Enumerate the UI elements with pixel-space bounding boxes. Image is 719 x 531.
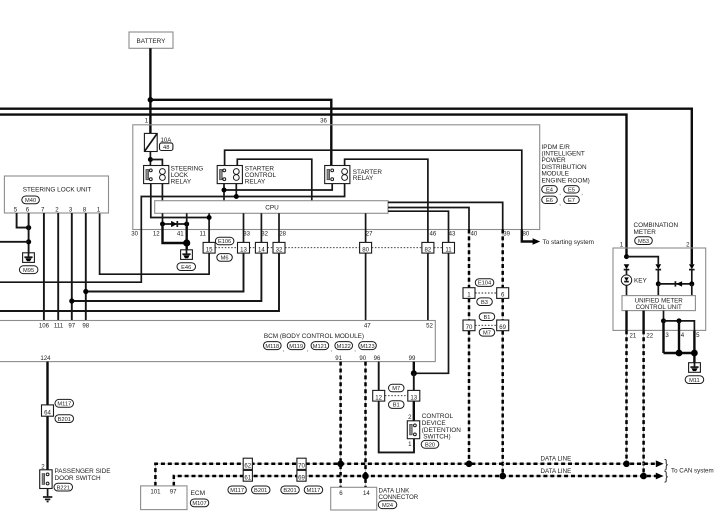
- node coil link: [234, 194, 239, 199]
- steering lock unit pin labels: [14, 207, 101, 214]
- svg-text:46: 46: [430, 231, 437, 238]
- battery box: [129, 32, 173, 48]
- svg-text:106: 106: [39, 323, 50, 330]
- svg-text:E6: E6: [546, 198, 553, 204]
- connector box 69 data: [297, 470, 306, 481]
- wire CPU right to pin 39: [388, 202, 503, 229]
- node meter pin1: [624, 254, 629, 259]
- wire branch to coil top: [150, 160, 162, 166]
- wire ground link: [664, 321, 695, 331]
- svg-text:64: 64: [44, 409, 51, 416]
- wire steering 3 to BCM 97: [71, 213, 73, 321]
- wire BCM 124 to door switch: [46, 362, 48, 470]
- svg-text:27: 27: [366, 231, 373, 238]
- connector box 13: [408, 390, 420, 401]
- node meter ground 5: [691, 350, 698, 357]
- svg-text:SWITCH): SWITCH): [423, 434, 450, 441]
- svg-text:32: 32: [261, 231, 268, 238]
- connector B201 data: [252, 486, 271, 494]
- svg-text:M6: M6: [221, 256, 229, 262]
- svg-text:5: 5: [14, 207, 18, 214]
- connector box 14: [255, 242, 267, 253]
- connector E104: [475, 279, 494, 287]
- node diode left: [160, 222, 165, 227]
- CPU box: [155, 201, 388, 214]
- svg-text:CONNECTOR: CONNECTOR: [379, 494, 419, 501]
- control device detention switch B20: [407, 413, 461, 448]
- wire from left edge: [0, 241, 29, 243]
- wire CPU to pin 41: [186, 213, 188, 224]
- dotted link 12-13: [385, 395, 408, 397]
- dotted link 70-69: [475, 324, 496, 326]
- node below fuse: [148, 157, 153, 162]
- svg-text:M7: M7: [483, 330, 491, 336]
- connector M121: [311, 342, 332, 353]
- svg-text:52: 52: [426, 323, 433, 330]
- svg-text:80: 80: [362, 246, 369, 253]
- svg-text:M122: M122: [337, 344, 351, 350]
- connector B1 upper: [479, 313, 495, 321]
- svg-text:M7: M7: [392, 386, 400, 392]
- wire pin1 branch: [627, 257, 659, 265]
- svg-text:E106: E106: [218, 239, 231, 245]
- node data2 x CAN39: [499, 473, 506, 480]
- svg-text:B201: B201: [283, 488, 296, 494]
- svg-text:M95: M95: [23, 268, 34, 274]
- svg-text:E7: E7: [568, 198, 575, 204]
- svg-text:40: 40: [471, 231, 478, 238]
- connector box 62: [243, 458, 252, 469]
- wire starter control coil top to CPU: [237, 159, 311, 201]
- node meter mid: [656, 281, 661, 286]
- svg-text:6: 6: [501, 292, 505, 299]
- connector box 15: [203, 242, 215, 253]
- svg-text:DATA LINE: DATA LINE: [541, 456, 572, 463]
- node BCM 97 tap: [69, 298, 74, 303]
- arrow data line 1: [656, 460, 664, 467]
- node battery junction: [148, 97, 154, 103]
- svg-text:98: 98: [82, 323, 89, 330]
- svg-text:28: 28: [279, 231, 286, 238]
- connector B3: [477, 298, 493, 306]
- svg-text:13: 13: [410, 394, 417, 401]
- wire cross link with diode D5: [658, 281, 692, 286]
- svg-text:21: 21: [630, 333, 637, 340]
- IPDM bottom pin labels: [131, 231, 530, 238]
- wire middle diode to node: [657, 270, 659, 284]
- dashed BCM 91 to data line 1 and DLC 6: [340, 362, 342, 488]
- connector B1: [389, 401, 405, 409]
- node ground branch mid: [677, 318, 682, 323]
- svg-text:B1: B1: [484, 315, 491, 321]
- svg-text:M123: M123: [360, 344, 374, 350]
- relay starter: [325, 166, 383, 184]
- connector row E106 / M6: [215, 237, 442, 261]
- connector box 70: [463, 320, 475, 331]
- svg-text:}: }: [664, 459, 668, 471]
- connector B201 data2: [281, 486, 300, 494]
- node data1 x meter21: [623, 461, 630, 468]
- wire pin 12 to ground: [163, 224, 187, 243]
- svg-text:48: 48: [163, 145, 169, 151]
- wire starter control coil bottom: [235, 184, 237, 197]
- BCM box: [0, 321, 435, 362]
- data link connector box M24: [331, 487, 419, 510]
- connector M7: [389, 384, 405, 392]
- svg-text:E5: E5: [568, 187, 575, 193]
- svg-text:14: 14: [258, 246, 265, 253]
- svg-text:ECM: ECM: [191, 490, 206, 497]
- node BCM 99 junction: [411, 370, 417, 376]
- svg-text:RELAY: RELAY: [245, 179, 266, 186]
- svg-text:B201: B201: [58, 417, 71, 423]
- wire pin 6 to ground M95: [28, 213, 30, 253]
- svg-text:E46: E46: [181, 265, 191, 271]
- wire starter relay coil top to pin 46: [345, 159, 428, 229]
- wire steering 8 to BCM 98: [85, 213, 87, 321]
- svg-text:101: 101: [150, 489, 161, 496]
- svg-text:32: 32: [276, 246, 283, 253]
- svg-text:B3: B3: [481, 300, 488, 306]
- svg-text:KEY: KEY: [634, 277, 648, 284]
- wire fuse to relay: [149, 152, 151, 166]
- wire CPU pin 32: [260, 213, 262, 242]
- svg-text:DOOR SWITCH: DOOR SWITCH: [55, 475, 102, 482]
- svg-text:11: 11: [200, 231, 207, 238]
- node pin5/6: [26, 225, 31, 230]
- svg-text:96: 96: [374, 355, 381, 362]
- svg-text:30: 30: [131, 231, 138, 238]
- wire CPU pin 27: [365, 213, 367, 242]
- node ground branch left: [661, 318, 666, 323]
- node BCM 98 tap: [83, 289, 88, 294]
- svg-text:}: }: [664, 471, 668, 483]
- BCM bottom pin labels: [40, 355, 416, 362]
- svg-text:69: 69: [298, 474, 305, 481]
- svg-text:14: 14: [363, 490, 370, 497]
- diode D1 pin12 to pin41: [163, 221, 187, 227]
- svg-text:To starting system: To starting system: [543, 239, 595, 246]
- wire UMCU to pin 21: [625, 311, 627, 331]
- connector E7: [564, 196, 580, 204]
- connector M117: [55, 399, 74, 407]
- passenger side door switch B221: [40, 464, 111, 492]
- connector M119: [287, 342, 308, 353]
- wire pin 80 to starting system arrow: [522, 230, 534, 242]
- KEY warning lamp: [621, 270, 647, 296]
- wire pin 4: [678, 321, 680, 331]
- wire UMCU to pin 22: [642, 311, 644, 331]
- svg-text:To CAN system: To CAN system: [671, 467, 714, 474]
- wire CPU to diode line left (pin 12): [162, 213, 164, 224]
- diode D3 meter middle: [656, 264, 662, 269]
- connector M122: [335, 342, 356, 353]
- wire contact bottoms link: [223, 184, 225, 201]
- arrow data line 2: [656, 473, 664, 480]
- node data2 x BCM90: [362, 473, 369, 480]
- connector box 32: [273, 242, 285, 253]
- connector B201: [55, 415, 74, 423]
- connector E4: [542, 186, 562, 197]
- svg-text:97: 97: [170, 489, 177, 496]
- connector box 1: [463, 288, 475, 299]
- svg-text:M11: M11: [689, 378, 700, 384]
- connector box 69: [497, 320, 509, 331]
- ground connector M95: [19, 253, 38, 274]
- node meter ground 4: [676, 350, 683, 357]
- wire node to box 13: [413, 373, 415, 390]
- svg-text:33: 33: [243, 231, 250, 238]
- connector box 13: [238, 242, 250, 253]
- svg-text:15: 15: [206, 246, 213, 253]
- unified meter control unit box: [622, 296, 695, 312]
- wire steering relay coil bottom to CPU: [161, 184, 163, 201]
- dashed CAN pin 39 column: [502, 230, 504, 477]
- connector M7 lower: [479, 329, 495, 337]
- svg-text:E104: E104: [478, 281, 491, 287]
- svg-text:61: 61: [244, 474, 251, 481]
- dashed meter pin 22 to data line 2: [643, 330, 645, 476]
- svg-text:80: 80: [523, 231, 530, 238]
- wire coil bottoms to pin 30: [0, 184, 345, 283]
- svg-text:B20: B20: [425, 443, 435, 449]
- svg-text:M53: M53: [638, 239, 649, 245]
- svg-text:13: 13: [240, 246, 247, 253]
- steering lock unit box M40: [4, 176, 108, 213]
- svg-text:BATTERY: BATTERY: [137, 38, 167, 45]
- wire meter pins 3 4 5 to ground: [664, 330, 695, 362]
- svg-text:M117: M117: [230, 488, 244, 494]
- data line 2 CAN-L: [174, 468, 657, 486]
- node meter pin2 branch: [689, 281, 694, 286]
- wire CPU right to pin 43: [388, 211, 449, 242]
- svg-text:DATA LINE: DATA LINE: [541, 468, 572, 475]
- svg-text:E4: E4: [546, 187, 553, 193]
- wire bus line 1 to meter pin 2: [0, 109, 692, 265]
- wire steering relay contact bottom to pin11 link: [151, 184, 209, 218]
- svg-text:PASSENGER SIDE: PASSENGER SIDE: [55, 468, 111, 475]
- svg-text:82: 82: [425, 246, 432, 253]
- wire steering 2 to BCM 111: [57, 213, 59, 321]
- wire pin 3: [662, 321, 664, 331]
- ECM box M107: [141, 486, 209, 510]
- svg-text:36: 36: [320, 118, 327, 125]
- svg-text:90: 90: [359, 355, 366, 362]
- wire mid node to UMCU: [657, 284, 659, 296]
- svg-text:1: 1: [97, 207, 101, 214]
- svg-text:39: 39: [503, 231, 510, 238]
- wire box 13 to switch pin 2: [413, 401, 415, 421]
- connector E5: [564, 186, 584, 197]
- wire starter control contact top to pin 80: [225, 150, 522, 229]
- wire node to UMCU: [691, 284, 693, 296]
- svg-text:12: 12: [375, 394, 382, 401]
- svg-text:B1: B1: [393, 403, 400, 409]
- wire pin2 diode to node: [691, 270, 693, 284]
- node pin 11 tap: [207, 215, 212, 220]
- connector box 12: [373, 390, 385, 401]
- connector E6: [542, 196, 562, 207]
- connector box 6: [497, 288, 509, 299]
- node ground feed: [26, 239, 31, 244]
- connector box 80: [360, 242, 372, 253]
- BCM top pin labels: [39, 323, 434, 330]
- svg-text:111: 111: [54, 323, 64, 330]
- svg-text:M117: M117: [57, 402, 71, 408]
- wire pin 5 jumper: [17, 213, 29, 228]
- dashed meter pin 21 to data line 1: [626, 330, 628, 463]
- node data2 x meter22: [640, 473, 647, 480]
- connector M117 data: [228, 486, 247, 494]
- ground connector E46: [177, 250, 196, 271]
- connector box 82: [422, 242, 434, 253]
- node contact link: [222, 188, 227, 193]
- wire CPU pin 28: [278, 213, 280, 242]
- connector M123: [359, 342, 377, 350]
- svg-text:RELAY: RELAY: [171, 179, 192, 186]
- svg-text:M117: M117: [306, 488, 320, 494]
- svg-text:70: 70: [298, 462, 305, 469]
- svg-text:M118: M118: [265, 344, 279, 350]
- IPDM label text: [542, 144, 590, 185]
- dashed CAN pin 40 column: [468, 230, 470, 464]
- svg-text:M107: M107: [192, 501, 206, 507]
- wire steering 7 to BCM 106: [43, 213, 45, 321]
- svg-text:43: 43: [449, 231, 456, 238]
- svg-text:62: 62: [244, 462, 251, 469]
- wire BCM 99: [413, 362, 415, 374]
- meter bottom pin labels: [630, 332, 701, 339]
- svg-text:91: 91: [335, 355, 342, 362]
- fuse 10A 48: [144, 133, 173, 151]
- svg-text:97: 97: [68, 323, 75, 330]
- svg-text:CPU: CPU: [265, 205, 279, 212]
- wire battery feed to pin 36: [150, 100, 331, 166]
- connector box 70 data: [297, 458, 306, 469]
- svg-text:69: 69: [499, 324, 506, 331]
- wire CPU right to pin 40: [388, 208, 469, 230]
- svg-text:12: 12: [153, 231, 160, 238]
- svg-text:22: 22: [646, 333, 653, 340]
- svg-text:B221: B221: [57, 485, 70, 491]
- svg-text:B201: B201: [254, 488, 267, 494]
- connector box 64: [42, 405, 54, 416]
- ground door switch: [43, 489, 52, 502]
- svg-text:70: 70: [466, 324, 473, 331]
- svg-text:M119: M119: [289, 344, 303, 350]
- node data1 x BCM91: [337, 461, 344, 468]
- svg-text:ENGINE ROOM): ENGINE ROOM): [542, 177, 590, 184]
- svg-text:6: 6: [26, 207, 30, 214]
- svg-text:124: 124: [40, 355, 51, 362]
- svg-text:41: 41: [177, 231, 184, 238]
- wire pin 28 to left edge: [0, 253, 279, 311]
- IPDM E/R box: [133, 125, 540, 230]
- connector M118: [264, 342, 285, 353]
- wire bus line 2 to meter pin 1: [0, 115, 627, 257]
- svg-text:99: 99: [409, 355, 416, 362]
- ground connector M11: [685, 363, 704, 384]
- dashed BCM 90 to data line 2 and DLC 14: [365, 362, 367, 488]
- relay starter control: [217, 166, 276, 186]
- wire pin 46 to BCM 52: [427, 230, 429, 321]
- svg-text:STEERING LOCK UNIT: STEERING LOCK UNIT: [23, 187, 92, 194]
- arrow to starting system: [533, 238, 541, 244]
- svg-text:M121: M121: [313, 344, 327, 350]
- data line 1 CAN-H: [155, 456, 657, 486]
- svg-text:CONTROL UNIT: CONTROL UNIT: [636, 304, 682, 311]
- dotted link 1-6: [475, 292, 496, 294]
- wire CPU pin 33: [243, 213, 245, 242]
- node ground E46: [183, 239, 190, 246]
- wire pin 32 to BCM 97 link: [72, 253, 262, 301]
- wire pin 41 to ground: [185, 224, 187, 250]
- wire battery drop: [149, 48, 151, 133]
- connector box 61: [243, 470, 252, 481]
- diode D2 meter pin1: [624, 264, 630, 269]
- node diode right: [184, 222, 189, 227]
- svg-text:11: 11: [445, 246, 452, 253]
- wire pin 43 to BCM 99 node: [414, 253, 449, 373]
- node data1 x CAN40: [466, 461, 473, 468]
- svg-text:BCM (BODY CONTROL MODULE): BCM (BODY CONTROL MODULE): [264, 333, 364, 340]
- svg-text:4: 4: [681, 332, 685, 339]
- wire pin 11 to steering pin 1: [100, 213, 210, 274]
- connector M117 data2: [304, 486, 323, 494]
- svg-text:RELAY: RELAY: [353, 175, 374, 182]
- diode D4 meter pin2: [689, 264, 695, 269]
- svg-text:7: 7: [41, 207, 45, 214]
- wire pin 27 to BCM 47: [365, 253, 367, 320]
- svg-text:M24: M24: [382, 503, 393, 509]
- wire pin 33 to BCM 98 link: [86, 253, 244, 291]
- svg-text:METER: METER: [634, 229, 657, 236]
- wire CPU pin 11 with junction: [208, 213, 210, 242]
- relay steering lock: [144, 166, 204, 186]
- combination meter box M53: [613, 222, 706, 330]
- svg-text:M40: M40: [25, 198, 36, 204]
- wire UMCU ground branch: [663, 311, 665, 321]
- svg-text:47: 47: [364, 323, 371, 330]
- wire BCM 96 loop to detention switch: [379, 362, 414, 453]
- connector box 11: [443, 242, 455, 253]
